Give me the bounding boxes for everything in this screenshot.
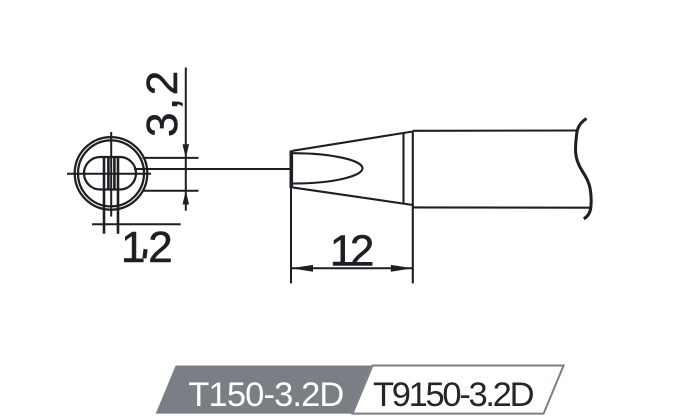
svg-text:T9150-3.2D: T9150-3.2D xyxy=(373,376,534,414)
svg-text:3,2: 3,2 xyxy=(138,68,187,137)
front view inner circle xyxy=(78,140,144,206)
extension line bottom (3,2) xyxy=(143,190,199,192)
collar line 1 xyxy=(402,132,404,205)
dimension line 12 xyxy=(291,267,413,269)
arrow down to top ext line (3,2) xyxy=(183,144,190,158)
front view outer circle xyxy=(75,137,148,210)
comma of 1,2 xyxy=(144,249,145,258)
chisel edge band hatch line 1 xyxy=(107,158,110,190)
horizontal centerline of circle xyxy=(67,173,151,175)
chisel edge band hatch line 2 xyxy=(113,158,116,190)
label T150-3.2D gray parallelogram xyxy=(156,366,372,414)
collar line 2 / extension line right (12) xyxy=(412,131,414,283)
taper bottom line xyxy=(293,187,413,205)
tip axis centerline to side view xyxy=(134,168,290,170)
side view chisel edge xyxy=(289,150,293,188)
chisel edge band right line xyxy=(117,157,120,234)
arrow right (12) xyxy=(391,265,413,272)
capsule tip face outline xyxy=(84,157,136,190)
vertical centerline xyxy=(110,132,112,217)
dimension line 3,2 vertical xyxy=(185,68,187,211)
extension line left (12) xyxy=(290,188,292,284)
svg-text:2: 2 xyxy=(148,223,172,272)
chisel edge band left line xyxy=(103,157,106,234)
svg-text:1: 1 xyxy=(121,223,145,272)
foot serif of digit 1 in 12 xyxy=(333,262,345,265)
break wavy line xyxy=(576,119,592,219)
taper top line xyxy=(293,132,413,151)
chisel grind ellipse xyxy=(293,153,363,183)
cylinder top line xyxy=(413,129,578,131)
cylinder bottom line xyxy=(413,206,591,208)
svg-text:T150-3.2D: T150-3.2D xyxy=(188,376,343,414)
label T9150-3.2D white parallelogram xyxy=(353,366,564,414)
foot serif of digit 1 in 1,2 xyxy=(124,258,135,261)
svg-text:12: 12 xyxy=(330,227,373,276)
dimension line 1,2 horizontal xyxy=(92,223,181,225)
extension line top (3,2) xyxy=(143,157,199,159)
arrow up to bottom ext line (3,2) xyxy=(183,191,190,205)
arrow left (12) xyxy=(291,265,313,272)
